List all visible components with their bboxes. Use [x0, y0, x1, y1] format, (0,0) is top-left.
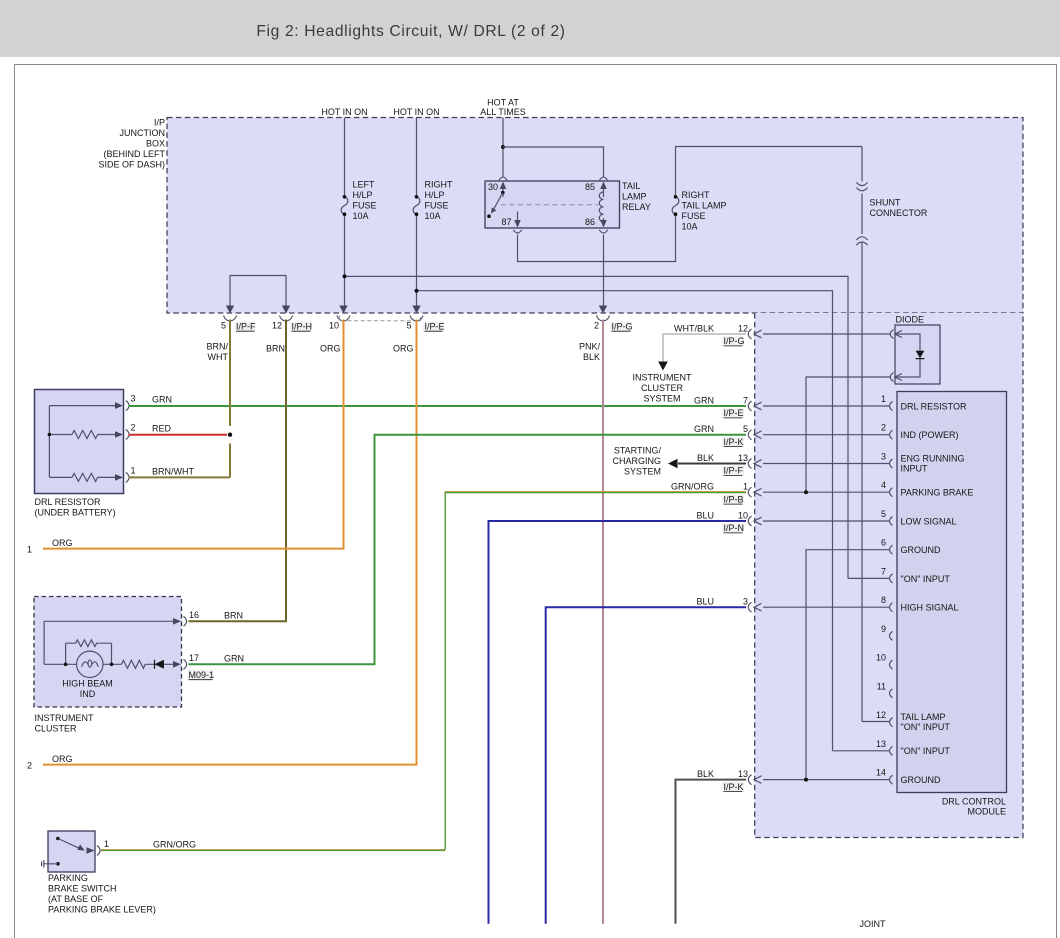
diode box: [895, 325, 940, 384]
svg-text:RELAY: RELAY: [622, 202, 651, 212]
node: bus junction on left fuse wire: [343, 274, 347, 278]
shunt connector: [856, 147, 867, 722]
svg-text:H/LP: H/LP: [425, 190, 445, 200]
pin 2 I/P-G connector cup: [597, 316, 610, 322]
node: bus junction on right fuse wire: [415, 289, 419, 293]
wire BLK: module pin 14 row down off page: [676, 780, 747, 924]
svg-text:GRN: GRN: [224, 654, 244, 664]
fuse RIGHT H/LP FUSE 10A: [413, 195, 420, 216]
svg-text:RIGHT: RIGHT: [425, 180, 454, 190]
svg-text:1: 1: [743, 482, 748, 492]
wire: module pin12-row to diode: [763, 333, 891, 335]
svg-text:CLUSTER: CLUSTER: [35, 724, 78, 734]
svg-text:I/P-K: I/P-K: [724, 782, 744, 792]
svg-text:GRN: GRN: [152, 395, 172, 405]
pin 5 I/P-E connector cup: [410, 316, 423, 322]
svg-text:SYSTEM: SYSTEM: [624, 466, 661, 476]
svg-text:BLK: BLK: [583, 352, 600, 362]
cluster internal wiring: [44, 621, 176, 664]
label SHUNT CONNECTOR: [870, 198, 928, 219]
label RIGHT H/LP FUSE 10A: [425, 180, 454, 222]
svg-text:1: 1: [104, 839, 109, 849]
svg-text:I/P-K: I/P-K: [724, 437, 744, 447]
svg-text:CHARGING: CHARGING: [612, 456, 661, 466]
relay pin 30 connector arc: [499, 177, 507, 180]
DRL control module outer dashed box: [755, 313, 1023, 838]
svg-text:3: 3: [743, 597, 748, 607]
svg-text:BLU: BLU: [696, 597, 714, 607]
svg-text:I/P-G: I/P-G: [724, 336, 745, 346]
svg-text:DIODE: DIODE: [896, 315, 925, 325]
module pin 4: [881, 480, 973, 497]
node: lamp right junction: [110, 663, 114, 667]
svg-text:1: 1: [131, 465, 136, 475]
label INSTRUMENT CLUSTER: [35, 713, 94, 734]
module edge connector WHT/BLK 12: [674, 323, 762, 346]
svg-text:12: 12: [272, 321, 282, 331]
pin 5 I/P-F exit arrow: [226, 306, 234, 314]
svg-text:HOT IN ON: HOT IN ON: [321, 107, 367, 117]
svg-text:13: 13: [876, 739, 886, 749]
pin 5 I/P-F connector cup: [224, 316, 237, 322]
svg-text:5: 5: [221, 321, 226, 331]
svg-text:GRN: GRN: [694, 395, 714, 405]
wire: right hot-in-on feed through right H/LP fuse: [416, 118, 418, 308]
pin 5 I/P-E exit arrow: [412, 306, 420, 314]
module pin 5: [881, 509, 957, 526]
relay switch contact: [487, 191, 504, 218]
svg-text:16: 16: [189, 610, 199, 620]
node: ground junction on pin 14 row: [804, 778, 808, 782]
relay pin 86 arrow: [600, 218, 607, 228]
svg-text:GRN/ORG: GRN/ORG: [671, 482, 714, 492]
parking brake chassis ground: [42, 860, 58, 868]
svg-text:HOT IN ON: HOT IN ON: [393, 107, 439, 117]
label STARTING/CHARGING SYSTEM: [612, 445, 661, 476]
diode in cluster: [155, 660, 164, 669]
wire WHT/BLK: module 12 to instrument cluster system: [663, 334, 746, 362]
resistor R2 (pin 1 branch): [72, 473, 98, 481]
module pin 11: [877, 681, 893, 698]
pin 5 I/P-E labels: [406, 321, 444, 332]
module pin 9: [881, 624, 893, 641]
svg-text:FUSE: FUSE: [425, 201, 449, 211]
relay TAIL LAMP RELAY box: [485, 181, 620, 228]
svg-text:LEFT: LEFT: [353, 180, 376, 190]
svg-text:BLU: BLU: [696, 510, 714, 520]
wire: module pin 6 to pin 14 row: [806, 550, 889, 780]
svg-text:M09-1: M09-1: [189, 670, 215, 680]
wire: module pin 3 row: [763, 463, 889, 465]
svg-text:TAIL LAMP: TAIL LAMP: [682, 201, 727, 211]
arrow to instrument cluster system: [658, 362, 668, 371]
svg-text:H/LP: H/LP: [353, 190, 373, 200]
svg-text:Fig 2: Headlights Circuit, W/: Fig 2: Headlights Circuit, W/ DRL (2 of …: [256, 23, 565, 40]
node: red/brn-wht junction: [228, 433, 232, 437]
svg-text:ALL TIMES: ALL TIMES: [480, 107, 526, 117]
svg-text:3: 3: [881, 452, 886, 462]
svg-text:10A: 10A: [682, 222, 698, 232]
node: resistor common junction: [48, 433, 52, 437]
svg-text:IND (POWER): IND (POWER): [901, 430, 959, 440]
svg-text:7: 7: [881, 566, 886, 576]
label DRL CONTROL MODULE: [942, 797, 1006, 817]
svg-text:"ON" INPUT: "ON" INPUT: [901, 574, 951, 584]
svg-text:SHUNT: SHUNT: [870, 198, 902, 208]
HOT AT ALL TIMES label: [480, 98, 526, 118]
svg-text:TAIL LAMP: TAIL LAMP: [901, 712, 946, 722]
instrument cluster box: [34, 597, 182, 708]
I/P junction box: [167, 118, 1023, 314]
wire: hot-at-all-times feed down to relay pin 30: [502, 118, 504, 177]
wire BRN: I/P-H exit down to cluster pin 16: [189, 320, 287, 622]
wire: module pin 2 row: [763, 434, 889, 436]
pin 12 I/P-H exit arrow: [282, 306, 290, 314]
module pin 14: [876, 768, 941, 785]
svg-text:LAMP: LAMP: [622, 192, 647, 202]
svg-text:1: 1: [881, 394, 886, 404]
node: junction hot feed / relay coil branch: [501, 145, 505, 149]
svg-text:FUSE: FUSE: [353, 201, 377, 211]
svg-text:6: 6: [881, 538, 886, 548]
wire: module pin 5 row: [763, 520, 889, 522]
svg-text:FUSE: FUSE: [682, 211, 706, 221]
relay pin 30 arrow: [500, 182, 507, 198]
header bar: [0, 0, 1060, 57]
svg-text:INSTRUMENT: INSTRUMENT: [35, 713, 94, 723]
svg-text:7: 7: [743, 395, 748, 405]
svg-text:ORG: ORG: [393, 344, 414, 354]
module edge connector BLK 13: [697, 453, 762, 476]
svg-text:2: 2: [594, 321, 599, 331]
svg-text:ORG: ORG: [320, 344, 341, 354]
svg-text:10: 10: [876, 653, 886, 663]
wire RED: resistor pin 2 to junction: [129, 434, 228, 436]
svg-text:BRN/: BRN/: [206, 342, 228, 352]
svg-text:11: 11: [877, 681, 886, 691]
svg-text:LOW SIGNAL: LOW SIGNAL: [901, 516, 957, 526]
relay pin 85 connector arc: [600, 177, 608, 180]
label PARKING BRAKE SWITCH: [48, 873, 156, 915]
svg-text:IND: IND: [80, 689, 96, 699]
wire BLU: module pin 5 row down off page: [489, 521, 747, 924]
module pin 8: [881, 595, 959, 612]
label INSTRUMENT CLUSTER SYSTEM: [633, 373, 692, 404]
svg-text:HIGH SIGNAL: HIGH SIGNAL: [901, 603, 959, 613]
module pin 3: [881, 452, 965, 474]
wire GRN: resistor pin 3 to module pin 1 row: [129, 405, 747, 407]
svg-text:BRN/WHT: BRN/WHT: [152, 466, 194, 476]
svg-text:(AT BASE OF: (AT BASE OF: [48, 894, 104, 904]
svg-text:I/P-G: I/P-G: [612, 322, 633, 332]
svg-text:PARKING BRAKE LEVER): PARKING BRAKE LEVER): [48, 905, 156, 915]
svg-text:I/P: I/P: [154, 118, 165, 128]
wire: relay pin 87 to right tail lamp fuse: [518, 147, 863, 262]
svg-text:BRAKE SWITCH: BRAKE SWITCH: [48, 884, 117, 894]
wire BLK: module pin 3 row to starting/charging system: [678, 463, 746, 465]
svg-text:14: 14: [876, 768, 886, 778]
lamp HIGH BEAM IND: [77, 651, 103, 677]
svg-text:INSTRUMENT: INSTRUMENT: [633, 373, 692, 383]
svg-text:10: 10: [329, 321, 339, 331]
relay coil: [599, 192, 603, 222]
svg-text:I/P-E: I/P-E: [724, 408, 744, 418]
svg-text:WHT: WHT: [208, 352, 229, 362]
I/P junction box label: [98, 118, 165, 170]
cluster pin 16 arrow: [173, 618, 181, 625]
svg-text:I/P-N: I/P-N: [724, 523, 745, 533]
svg-text:GROUND: GROUND: [901, 775, 941, 785]
diode top connector arc: [890, 330, 893, 339]
svg-text:BOX: BOX: [146, 139, 165, 149]
wire: module pin 12 stub: [862, 721, 889, 723]
pin 10 exit arrow: [339, 306, 347, 314]
pin 12 I/P-H labels: [272, 321, 312, 332]
diode bottom connector arrow: [895, 374, 902, 381]
resistor pin 1 arrow: [115, 474, 123, 481]
module edge connector BLU 3: [696, 597, 761, 613]
label DRL RESISTOR (UNDER BATTERY): [35, 497, 116, 518]
svg-text:SYSTEM: SYSTEM: [643, 394, 680, 404]
svg-text:BLK: BLK: [697, 453, 714, 463]
label HIGH BEAM IND: [62, 679, 113, 700]
resistor (series, pin 17): [121, 660, 145, 668]
wire: module pin 4 row: [763, 491, 889, 493]
resistor pin 3 connector arc: [126, 401, 129, 411]
svg-text:5: 5: [743, 424, 748, 434]
resistor pin 2 connector arc: [126, 430, 129, 440]
pin 2 I/P-G exit arrow: [599, 306, 607, 314]
module edge connector GRN/ORG 1: [671, 482, 762, 505]
svg-text:I/P-B: I/P-B: [724, 494, 744, 504]
resistor pin 3 arrow: [115, 402, 123, 409]
svg-text:"ON" INPUT: "ON" INPUT: [901, 722, 951, 732]
DRL control module inner box: [897, 392, 1007, 793]
svg-text:2: 2: [27, 761, 32, 771]
DRL resistor internal wiring: [49, 406, 118, 478]
relay pin 86 connector arc: [599, 230, 607, 233]
svg-text:2: 2: [131, 422, 136, 432]
svg-text:PARKING BRAKE: PARKING BRAKE: [901, 488, 974, 498]
svg-text:CLUSTER: CLUSTER: [641, 383, 684, 393]
svg-text:(UNDER BATTERY): (UNDER BATTERY): [35, 508, 116, 518]
svg-text:5: 5: [406, 321, 411, 331]
cluster pin 16 connector arc: [184, 616, 187, 626]
svg-text:9: 9: [881, 624, 886, 634]
cluster pin 17 arrow: [173, 661, 181, 668]
svg-text:ORG: ORG: [52, 538, 73, 548]
dashed connector bracket pins 10 / 5: [340, 316, 421, 321]
wire: right H/LP fuse bus to module pin 13: [417, 291, 833, 751]
diode D1: [916, 351, 925, 359]
pin 12 I/P-H connector cup: [280, 316, 293, 322]
label BRN/WHT wire color: [206, 342, 228, 363]
fuse RIGHT TAIL LAMP FUSE 10A: [672, 195, 679, 216]
svg-text:10A: 10A: [353, 211, 369, 221]
svg-text:HOT AT: HOT AT: [487, 98, 519, 108]
parking brake switch contacts: [56, 837, 85, 866]
svg-text:12: 12: [876, 710, 886, 720]
pin 5 I/P-F labels: [221, 321, 256, 332]
resistor pin 1 connector arc: [126, 472, 129, 482]
module edge connector BLK 13: [697, 769, 762, 792]
svg-text:RED: RED: [152, 423, 172, 433]
module edge connector GRN 5: [694, 424, 762, 447]
svg-text:I/P-E: I/P-E: [425, 322, 445, 332]
svg-text:4: 4: [881, 480, 886, 490]
wire GRN: module pin 2 row to cluster pin 17: [189, 435, 747, 665]
svg-text:86: 86: [585, 217, 595, 227]
parking brake pin 1 arrow: [87, 847, 95, 854]
wire: relay pin 86 down to I/P-G exit: [603, 235, 605, 308]
label M09-1: [188, 670, 215, 680]
label PNK/BLK wire color: [579, 342, 601, 363]
svg-text:TAIL: TAIL: [622, 181, 640, 191]
pin 10 connector cup: [337, 316, 350, 322]
label TAIL LAMP RELAY: [622, 181, 651, 212]
svg-text:BLK: BLK: [697, 769, 714, 779]
svg-text:I/P-F: I/P-F: [724, 466, 744, 476]
svg-text:12: 12: [738, 323, 748, 333]
label RIGHT TAIL LAMP FUSE 10A: [682, 190, 727, 232]
svg-text:I/P-H: I/P-H: [292, 322, 313, 332]
wire BLU: module pin 8 row down off page: [546, 607, 746, 924]
module edge connector BLU 10: [696, 510, 761, 533]
node: lamp left junction: [64, 663, 68, 667]
svg-text:87: 87: [502, 217, 512, 227]
module pin 10: [876, 653, 893, 670]
wire: branch to relay pin 85: [503, 147, 604, 177]
svg-text:13: 13: [738, 453, 748, 463]
module pin 2: [881, 423, 959, 440]
svg-text:2: 2: [881, 423, 886, 433]
svg-text:I/P-F: I/P-F: [236, 322, 256, 332]
wire: diode to parking brake row junction: [806, 377, 891, 492]
svg-text:CONNECTOR: CONNECTOR: [870, 208, 928, 218]
resistor R1 (pin 2 branch): [72, 431, 98, 439]
wire ORG: pin 5 I/P-E exit to left edge connector 2: [43, 320, 417, 765]
svg-text:13: 13: [738, 769, 748, 779]
svg-text:BRN: BRN: [266, 344, 285, 354]
parking brake switch box: [48, 831, 95, 872]
svg-text:INPUT: INPUT: [901, 464, 929, 474]
module pin 7: [881, 566, 950, 583]
relay pin 87 connector arc: [513, 230, 521, 233]
svg-text:STARTING/: STARTING/: [614, 445, 662, 455]
pin 2 I/P-G labels: [594, 321, 633, 332]
diode bottom connector arc: [890, 373, 893, 382]
wire: module pin 7 stub: [848, 577, 889, 579]
cluster pin 17 connector arc: [184, 659, 187, 669]
module pin 1: [881, 394, 967, 411]
svg-text:3: 3: [131, 394, 136, 404]
svg-text:GRN/ORG: GRN/ORG: [153, 840, 196, 850]
svg-text:ORG: ORG: [52, 754, 73, 764]
module pin 13: [876, 739, 950, 756]
svg-text:85: 85: [585, 182, 595, 192]
svg-text:MODULE: MODULE: [967, 807, 1006, 817]
wire GRN/ORG: module pin 4 row to parking brake switch: [101, 492, 746, 851]
parking brake pin 1 connector arc: [97, 846, 100, 856]
resistor (cluster shunt): [76, 640, 100, 647]
svg-text:17: 17: [189, 653, 199, 663]
relay internal dashed line: [501, 204, 599, 206]
arrow to starting/charging system: [668, 459, 678, 469]
wire: left H/LP fuse bus to module pin 7: [345, 276, 849, 578]
svg-text:ENG RUNNING: ENG RUNNING: [901, 454, 965, 464]
svg-text:GROUND: GROUND: [901, 545, 941, 555]
svg-text:DRL CONTROL: DRL CONTROL: [942, 797, 1006, 807]
relay pin 87 arrow: [514, 212, 521, 228]
node: diode junction on pin 4 row: [804, 490, 808, 494]
svg-text:JOINT: JOINT: [860, 919, 887, 929]
svg-text:SIDE OF DASH): SIDE OF DASH): [98, 160, 165, 170]
module pin 12: [876, 710, 950, 732]
svg-text:DRL RESISTOR: DRL RESISTOR: [35, 497, 102, 507]
wire: module pin 13 stub: [833, 750, 890, 752]
svg-text:10A: 10A: [425, 211, 441, 221]
svg-text:RIGHT: RIGHT: [682, 190, 711, 200]
svg-text:"ON" INPUT: "ON" INPUT: [901, 746, 951, 756]
svg-text:30: 30: [488, 182, 498, 192]
module pin 6: [881, 538, 941, 555]
svg-text:DRL RESISTOR: DRL RESISTOR: [901, 401, 968, 411]
svg-text:JUNCTION: JUNCTION: [120, 128, 166, 138]
svg-text:PNK/: PNK/: [579, 342, 601, 352]
wire: module pin 8 row: [763, 606, 889, 608]
svg-text:PARKING: PARKING: [48, 873, 88, 883]
resistor pin 2 arrow: [115, 431, 123, 438]
module edge connector GRN 7: [694, 395, 762, 418]
svg-text:HIGH BEAM: HIGH BEAM: [62, 679, 113, 689]
svg-text:5: 5: [881, 509, 886, 519]
wire ORG: pin 10 exit to left edge connector 1: [43, 320, 344, 549]
diode top connector arrow: [895, 331, 902, 338]
svg-text:10: 10: [738, 510, 748, 520]
wire: U jumper between I/P-F and I/P-H exits: [230, 276, 286, 308]
wire: left hot-in-on feed through left H/LP fuse: [344, 118, 346, 308]
diode internal wiring: [896, 334, 920, 377]
wire: module pin 1 row: [763, 405, 889, 407]
svg-text:GRN: GRN: [694, 424, 714, 434]
wire: module pin 14 row: [763, 779, 889, 781]
relay pin 85 arrow: [600, 182, 607, 198]
svg-text:(BEHIND LEFT: (BEHIND LEFT: [103, 149, 165, 159]
svg-text:WHT/BLK: WHT/BLK: [674, 323, 714, 333]
DRL resistor box: [35, 390, 124, 494]
wire BRN/WHT: I/P-F exit down to resistor pin 1: [129, 320, 231, 478]
label LEFT H/LP FUSE 10A: [353, 180, 377, 222]
svg-text:8: 8: [881, 595, 886, 605]
fuse LEFT H/LP FUSE 10A: [341, 195, 348, 216]
wire PNK/BLK: I/P-G exit down off page: [602, 320, 604, 924]
svg-text:BRN: BRN: [224, 611, 243, 621]
svg-text:1: 1: [27, 545, 32, 555]
